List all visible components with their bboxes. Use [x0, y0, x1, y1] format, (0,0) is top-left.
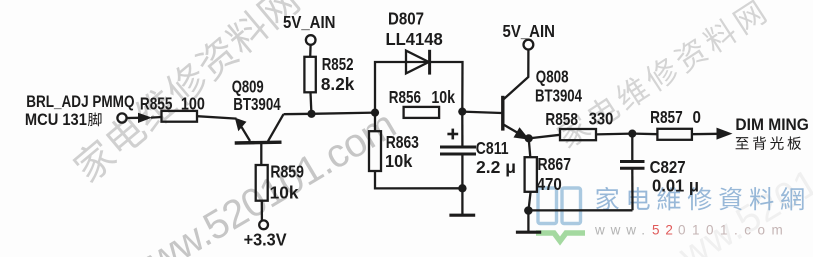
junction Q808 emitter [525, 134, 533, 142]
resistor R856 [404, 107, 440, 118]
svg-text:5V_AIN: 5V_AIN [503, 21, 556, 41]
svg-text:10k: 10k [270, 182, 299, 202]
resistor R863 [369, 131, 381, 171]
svg-text:0.01 μ: 0.01 μ [652, 176, 699, 196]
svg-text:330: 330 [589, 109, 614, 129]
capacitor C811 labels [476, 138, 516, 177]
diode D807 [406, 50, 430, 75]
resistor R857 label [650, 107, 701, 127]
capacitor C811 [440, 147, 476, 154]
watermark diagonal text right [554, 0, 768, 150]
transistor Q809 labels [232, 76, 281, 114]
svg-text:10k: 10k [385, 151, 413, 171]
svg-text:R858: R858 [545, 109, 578, 129]
ground G1 [449, 188, 475, 215]
transistor Q808 [503, 96, 530, 140]
wire rail to D807 node [312, 113, 376, 114]
resistor R858 [560, 129, 596, 140]
junction ground rail [458, 184, 466, 192]
svg-text:8.2k: 8.2k [321, 74, 355, 94]
wire C827 to ground rail [631, 169, 634, 211]
watermark faint url bottom right [671, 150, 813, 257]
wire 5V to Q808 collector [503, 50, 528, 100]
wire 5V to R852 [309, 45, 312, 57]
wire R857 to output arrow [692, 128, 733, 140]
svg-text:+3.3V: +3.3V [244, 229, 287, 249]
terminal 5V_AIN right [524, 40, 534, 50]
capacitor C827 [620, 162, 645, 169]
wire node to R863 [374, 113, 376, 132]
svg-text:MCU 131: MCU 131 [25, 110, 87, 129]
wire emitter to R858 [529, 135, 560, 139]
resistor R858 label [545, 109, 613, 129]
wire node to C827 [631, 134, 633, 161]
svg-text:R856: R856 [389, 87, 421, 107]
node MCU 131 pin label [25, 110, 102, 129]
svg-text:52: 52 [652, 223, 679, 238]
resistor R856 label [389, 87, 456, 107]
svg-text:0101.com: 0101.com [678, 223, 789, 238]
wire emitter to R867 [529, 138, 531, 157]
resistor R852 labels [321, 54, 355, 94]
wire R859 to +3.3V [261, 201, 263, 220]
svg-text:LL4148: LL4148 [386, 29, 444, 49]
wire node to Q808 base [462, 112, 501, 113]
terminal BRL_ADJ [117, 113, 126, 122]
resistor R867 labels [537, 154, 571, 194]
wire Q809 collector to node [284, 113, 312, 116]
logo site name text [596, 187, 804, 210]
wire R863 to ground rail [375, 171, 462, 188]
wire node to R857 [632, 132, 658, 135]
capacitor C827 labels [650, 157, 699, 196]
resistor R857 [657, 129, 692, 140]
svg-text:www.: www. [594, 223, 651, 238]
junction ground node right [524, 206, 533, 215]
ground G2 [516, 211, 541, 233]
svg-text:R863: R863 [386, 132, 419, 152]
node backlight board label [736, 136, 802, 149]
resistor R855 value label [140, 93, 205, 113]
diode D807 labels [386, 9, 444, 49]
logo books icon [536, 188, 585, 241]
logo url text [594, 223, 789, 238]
svg-text:Q808: Q808 [536, 66, 569, 86]
svg-text:C827: C827 [650, 157, 686, 177]
resistor R867 [525, 157, 537, 192]
wire R867 to ground node [529, 192, 531, 211]
wire D807 loop [375, 62, 463, 113]
svg-text:R852: R852 [322, 54, 354, 74]
svg-text:0: 0 [693, 107, 701, 127]
transistor Q808 labels [535, 66, 582, 105]
svg-text:BT3904: BT3904 [233, 94, 281, 114]
svg-text:R859: R859 [270, 162, 304, 182]
wire R855 to Q809 emitter [197, 116, 237, 118]
resistor R859 [256, 165, 268, 201]
wire input arrow [127, 113, 162, 123]
capacitor C811 polarity plus [447, 129, 458, 140]
junction C827 tap [628, 130, 636, 138]
wire C811 to ground [461, 154, 463, 188]
svg-text:R867: R867 [538, 154, 572, 174]
watermark diagonal text left [69, 0, 302, 185]
wire R852 to rail [309, 92, 312, 111]
svg-text:470: 470 [537, 174, 562, 194]
svg-text:5V_AIN: 5V_AIN [283, 12, 336, 32]
terminal +3.3V [259, 220, 268, 229]
svg-text:R857: R857 [650, 107, 683, 127]
resistor R855 [162, 111, 198, 122]
wire node to C811 [461, 112, 463, 146]
junction R856 right [458, 108, 466, 116]
resistor R852 [304, 57, 315, 93]
wire R858 to C827 node [596, 132, 632, 135]
terminal 5V_AIN left [306, 35, 316, 45]
wire ground rail right [528, 209, 632, 211]
junction R852 rail [307, 110, 315, 118]
svg-text:10k: 10k [431, 87, 455, 107]
watermark diagonal url center [115, 103, 403, 257]
transistor Q809 [235, 114, 284, 165]
junction D807 left [371, 109, 379, 117]
svg-text:D807: D807 [388, 9, 424, 29]
resistor R863 labels [385, 132, 419, 171]
svg-text:BT3904: BT3904 [535, 85, 582, 105]
svg-text:BRL_ADJ PMMQ: BRL_ADJ PMMQ [26, 92, 134, 111]
svg-text:C811: C811 [476, 138, 509, 158]
resistor R859 labels [270, 162, 304, 203]
svg-text:DIM MING: DIM MING [735, 115, 809, 134]
svg-text:2.2 μ: 2.2 μ [476, 157, 516, 177]
